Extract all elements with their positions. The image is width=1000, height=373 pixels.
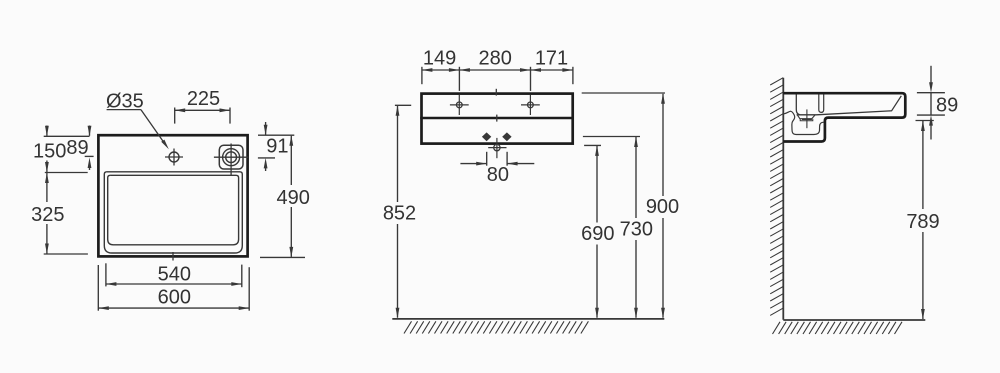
svg-text:690: 690 [581, 223, 614, 245]
svg-text:600: 600 [158, 287, 191, 309]
dimension 852 [383, 105, 416, 318]
side profile: drain centerline cross [806, 109, 808, 128]
svg-text:280: 280 [479, 48, 512, 70]
front view: rim line [420, 117, 574, 119]
fixing hole diamond left [482, 132, 491, 141]
svg-text:490: 490 [277, 187, 310, 209]
mounting hole left [450, 95, 469, 115]
washbasin top view: outer rim [98, 135, 247, 256]
svg-text:730: 730 [620, 218, 653, 240]
svg-text:149: 149 [423, 48, 456, 70]
floor line (front view) [392, 318, 664, 320]
side profile: drain recess [797, 115, 815, 119]
extension line top edge left [44, 135, 90, 137]
svg-text:325: 325 [31, 204, 64, 226]
wall line [782, 78, 784, 320]
dimension 540 [106, 263, 242, 287]
extension line fixing holes level [583, 136, 640, 138]
drain outlet [488, 138, 506, 158]
side profile: basin outline [783, 93, 905, 141]
extension line top edge right [258, 134, 294, 136]
svg-text:852: 852 [383, 203, 416, 225]
dimension 600 [98, 265, 249, 311]
side profile: bowl floor and slope [797, 96, 902, 115]
dimension 789 [906, 121, 939, 320]
dimension 89 (side view) [929, 66, 958, 140]
center tick bottom edge (top view) [172, 252, 174, 261]
dimension 690 [581, 145, 614, 318]
svg-text:91: 91 [266, 135, 288, 157]
mounting hole right [521, 95, 540, 115]
dimension 89 (top view) [66, 126, 93, 171]
washbasin top view: bowl outer edge [104, 172, 242, 253]
svg-text:540: 540 [158, 263, 191, 285]
extension line top edge (front) [582, 92, 665, 94]
dimension 490 [277, 135, 310, 257]
front view: center tick rim line [496, 115, 498, 122]
washbasin top view: bowl inner edge [108, 175, 239, 245]
extension line basin top (side) [917, 92, 945, 94]
floor line (side view) [783, 319, 925, 321]
dimension 900 [646, 93, 679, 318]
dimension 225 [175, 88, 230, 124]
front view: basin outline [422, 94, 573, 144]
top dimension chain 149/280/171 [422, 48, 573, 91]
overflow square fixture [214, 144, 248, 176]
floor hatching (front view) [404, 321, 588, 333]
extension line bowl top left [45, 172, 88, 174]
svg-text:225: 225 [187, 88, 220, 110]
extension line bottom edge left [44, 253, 88, 255]
front view: center tick top edge [495, 89, 497, 96]
dimension 150 [33, 126, 66, 173]
svg-text:80: 80 [487, 164, 509, 186]
svg-text:789: 789 [906, 211, 939, 233]
side profile: bowl interior left wall [796, 94, 800, 114]
extension line bottom edge right [260, 256, 305, 258]
faucet hole Ø35 [165, 149, 183, 166]
extension line basin bottom (side) [917, 114, 945, 116]
floor hatching (side view) [773, 322, 903, 334]
side profile: drain flange [800, 119, 813, 121]
label Ø35 with leader [106, 90, 169, 149]
svg-text:89: 89 [936, 95, 958, 117]
svg-text:150: 150 [33, 140, 66, 162]
wall hatching [770, 78, 783, 316]
side profile: trap cover curve [784, 111, 824, 134]
svg-text:171: 171 [535, 48, 568, 70]
dimension 91 [264, 122, 289, 171]
dimension 80 [460, 152, 534, 186]
extension line square center right [258, 157, 275, 159]
side profile: overflow channel [819, 94, 824, 112]
extension line drain level [584, 144, 601, 146]
svg-text:900: 900 [646, 196, 679, 218]
dimension 325 [31, 173, 64, 255]
dimension 730 [620, 137, 653, 319]
fixing hole diamond right [502, 132, 511, 141]
extension line 789 top [916, 120, 934, 122]
